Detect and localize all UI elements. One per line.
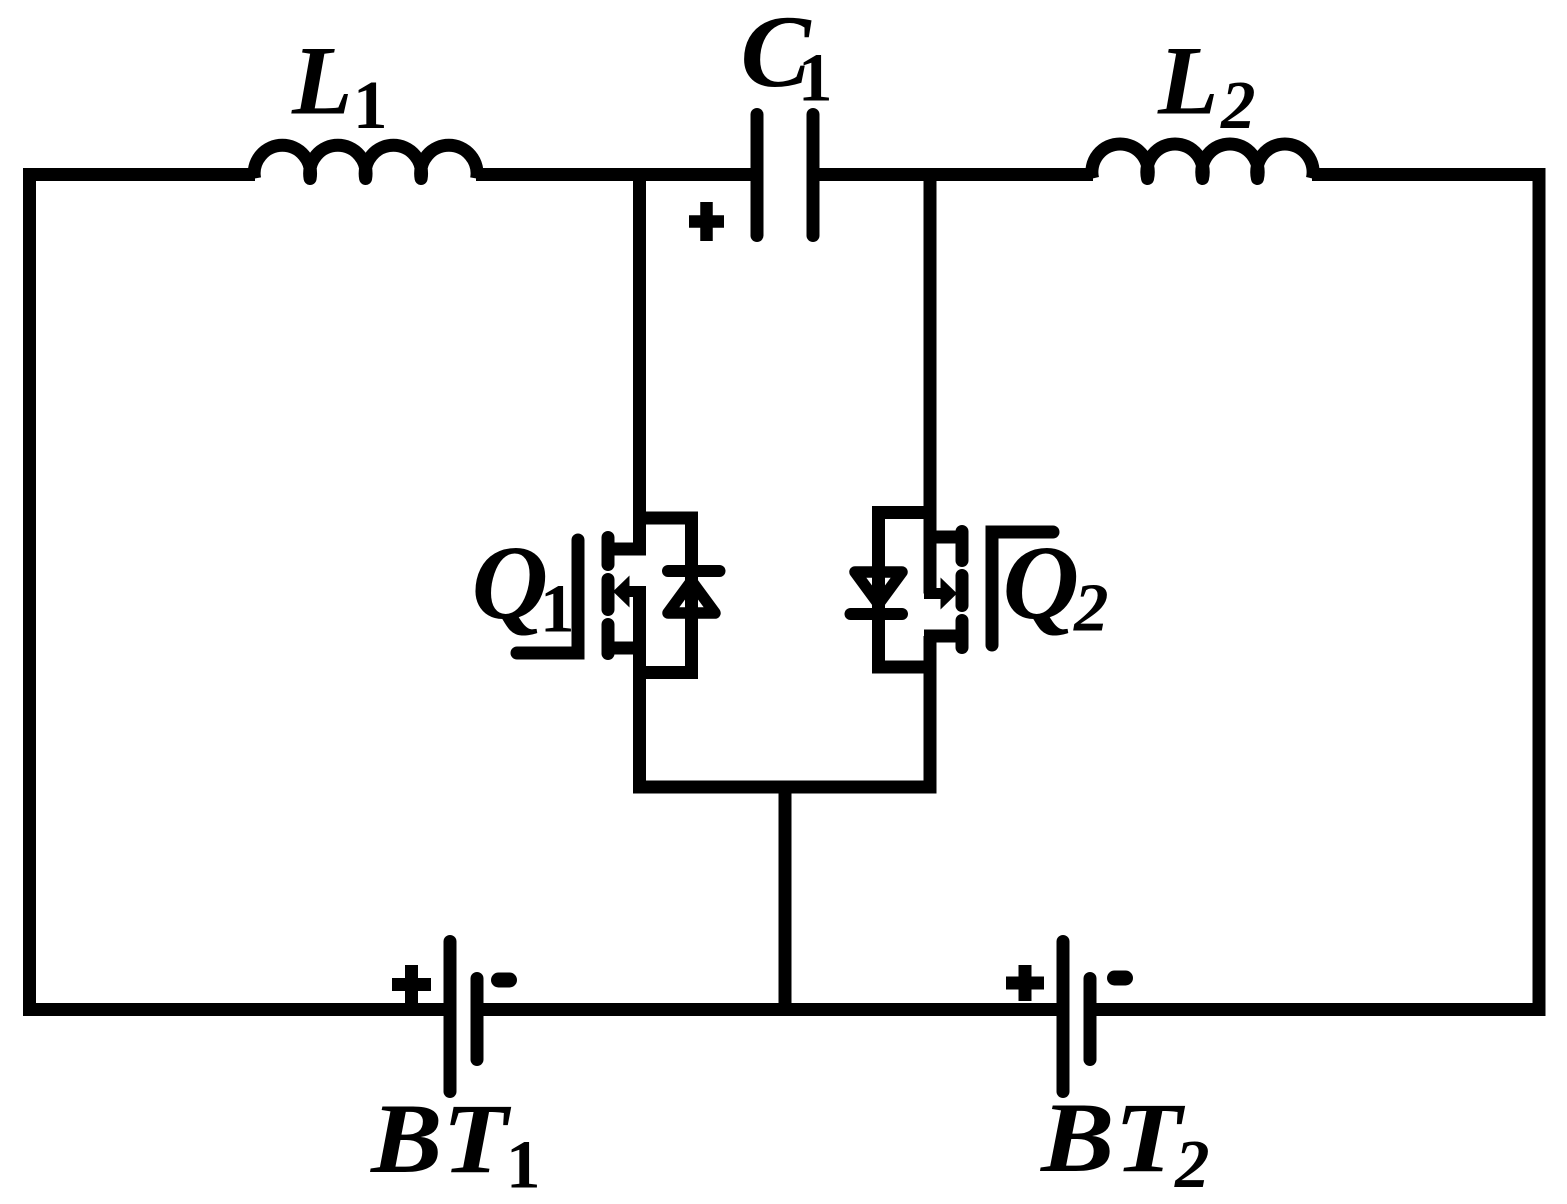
svg-text:Q: Q <box>472 524 549 641</box>
svg-text:2: 2 <box>1174 1126 1210 1202</box>
svg-text:1: 1 <box>506 1127 541 1203</box>
svg-text:BT: BT <box>370 1084 512 1194</box>
svg-text:1: 1 <box>540 571 575 647</box>
svg-text:1: 1 <box>798 40 833 116</box>
svg-text:BT: BT <box>1040 1082 1186 1193</box>
svg-text:2: 2 <box>1073 570 1109 646</box>
svg-text:Q: Q <box>1003 524 1080 641</box>
svg-text:2: 2 <box>1220 67 1256 143</box>
svg-text:L: L <box>291 27 352 136</box>
svg-text:1: 1 <box>353 67 388 143</box>
svg-text:L: L <box>1157 27 1218 136</box>
